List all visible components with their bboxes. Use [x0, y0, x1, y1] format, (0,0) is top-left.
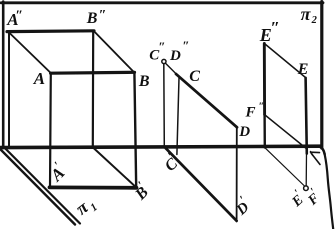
- segment CD (thick): [176, 74, 237, 127]
- plane pi2 right border: [320, 2, 323, 148]
- plane pi2 top border: [1, 1, 323, 4]
- wavy right edge of plane pi1: [325, 154, 334, 229]
- svg-text:E: E: [297, 61, 309, 78]
- svg-text:D: D: [238, 124, 250, 140]
- projection line C'' down to ground: [163, 64, 166, 147]
- svg-text:D: D: [169, 48, 181, 64]
- svg-text:B: B: [138, 73, 150, 90]
- cube top left depth edge A''-A: [8, 32, 51, 74]
- label D' (on pi1, slanted): [229, 193, 255, 219]
- projection line C down to C': [177, 78, 179, 155]
- cube front right vertical edge B-B': [134, 73, 136, 188]
- ground line (x axis between pi1 and pi2): [0, 146, 321, 147]
- plane pi2 left border: [2, 2, 5, 147]
- projection line D down to D': [236, 127, 238, 222]
- svg-text:″: ″: [99, 8, 107, 23]
- cube back right vertical edge B''-down: [92, 31, 95, 147]
- projection line F'' down to ground: [263, 115, 266, 148]
- projection ray C''-C (thin): [166, 63, 177, 74]
- projection ray E''-E (thin): [265, 44, 306, 78]
- svg-text:A: A: [33, 69, 45, 88]
- cube top front edge AB (thick): [51, 71, 135, 75]
- projection E''F'' on pi2 (thick vertical): [263, 44, 266, 115]
- svg-text:″: ″: [271, 18, 280, 37]
- projection ray on pi1 to E'=F': [265, 148, 305, 187]
- cube top right depth edge B''-B: [94, 31, 135, 73]
- svg-text:π: π: [301, 4, 312, 24]
- point C''=D'' (open circle): [162, 59, 166, 63]
- svg-text:C: C: [189, 68, 200, 85]
- point E'=F' (open circle): [304, 186, 309, 191]
- segment EF (thick vertical): [306, 78, 307, 154]
- cube front left vertical edge A-A': [49, 73, 52, 187]
- label B' (on pi1, slanted): [128, 178, 154, 204]
- svg-text:″: ″: [158, 39, 165, 54]
- label pi1 (slanted): [72, 192, 100, 221]
- svg-text:″: ″: [182, 38, 189, 53]
- cube bottom right depth edge to B': [93, 148, 136, 188]
- svg-text:F: F: [245, 105, 256, 121]
- plane pi1 front border line 1: [3, 146, 80, 224]
- projection line F down to E'=F': [305, 154, 307, 186]
- svg-text:″: ″: [259, 101, 265, 112]
- plane pi1 front border line 2: [1, 150, 75, 225]
- svg-text:″: ″: [15, 9, 23, 24]
- projection ray F''-F (thin): [265, 115, 306, 149]
- label F' (on pi1, slanted): [302, 186, 325, 209]
- projection C'D' on pi1 (thick): [166, 148, 237, 221]
- label A' (on pi1, slanted): [43, 159, 70, 186]
- x axis arrow mark: [311, 151, 320, 153]
- cube top back edge A''B'' (thick): [7, 29, 94, 33]
- cube back left vertical edge A''-down: [8, 32, 10, 147]
- ground line right hook into wavy pi1 edge: [319, 146, 325, 154]
- label E' (on pi1, slanted): [286, 187, 309, 210]
- svg-text:2: 2: [311, 15, 318, 26]
- label C' (on pi1, slanted): [158, 149, 183, 175]
- cube bottom front edge A'B' (thick): [50, 185, 137, 189]
- svg-text:B: B: [86, 10, 98, 27]
